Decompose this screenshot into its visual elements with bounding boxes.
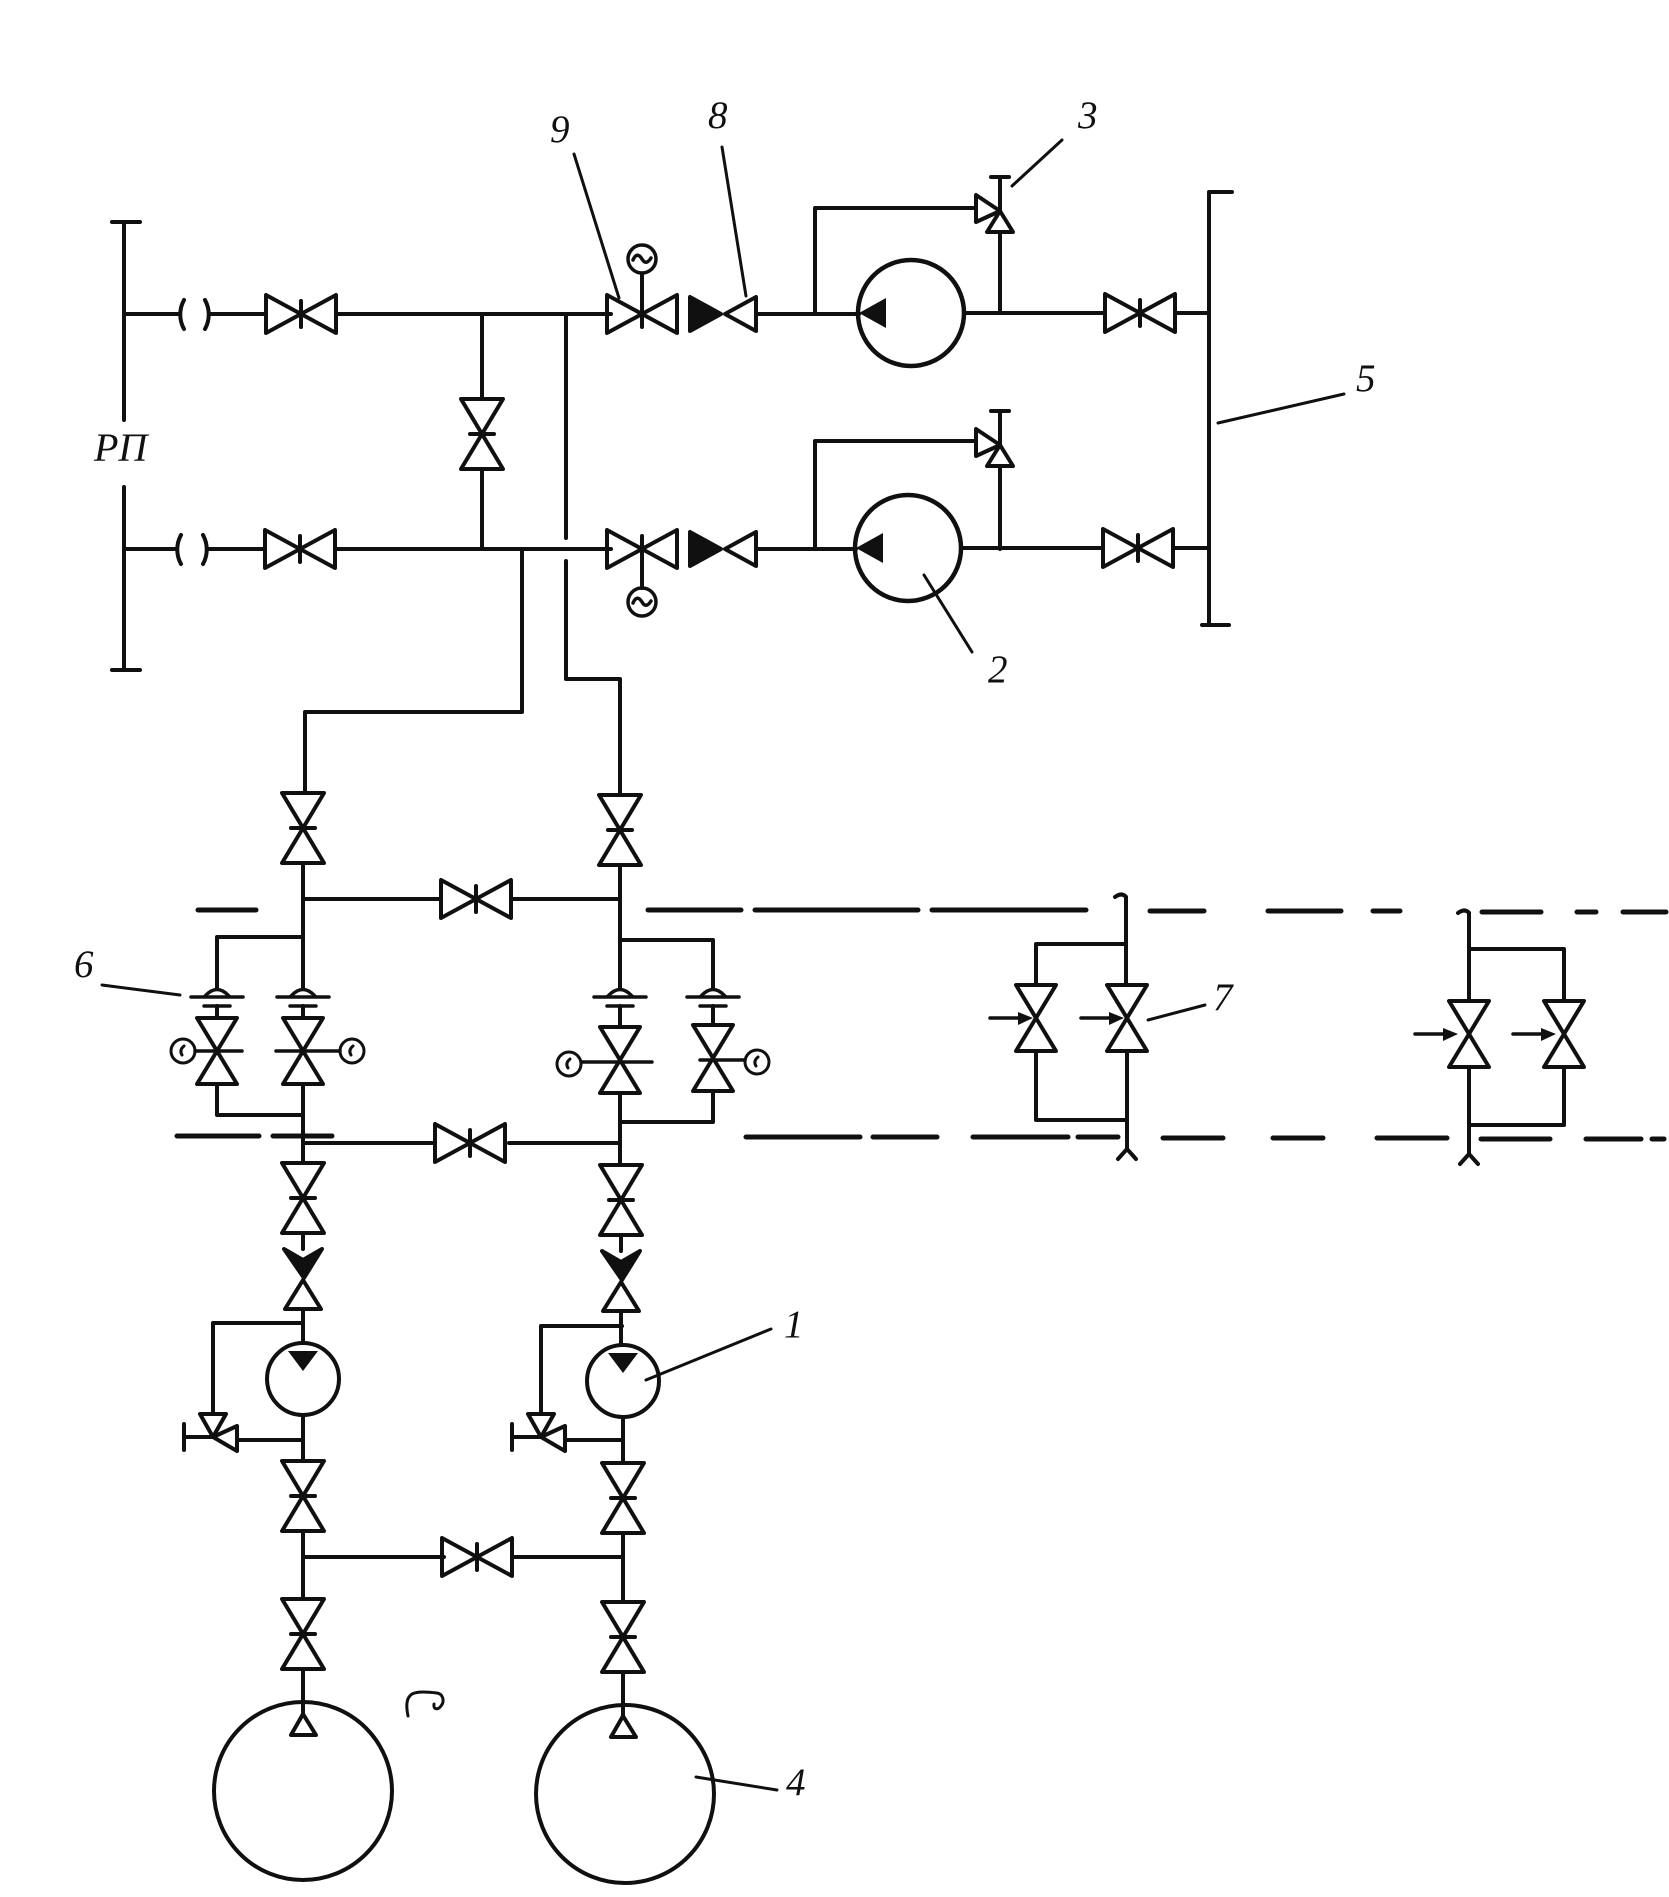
leader for 1 [646, 1329, 771, 1380]
pump 1b [587, 1345, 659, 1417]
wire right meter main riser [618, 899, 622, 1164]
gate valve crossover 2 [435, 1124, 505, 1162]
node consumer stub A bottom foot [1118, 1149, 1136, 1159]
wire left tank riser [301, 1669, 305, 1715]
flow arrow consumer A main [1081, 1012, 1124, 1025]
tank 4a [214, 1702, 392, 1880]
leader for 9 [574, 154, 619, 298]
leader for 2 [924, 575, 972, 652]
check valve 8 row 2 [690, 532, 756, 566]
wire actuator stem row 1 [640, 274, 644, 314]
wire drop line A from row 2 [305, 549, 522, 791]
svg-text:8: 8 [708, 94, 728, 137]
wire consumer A bypass [1036, 944, 1127, 1120]
node discharge header 5 [1202, 192, 1232, 625]
wire left vacuum bypass [213, 1323, 303, 1440]
flow arrow consumer A bypass [990, 1012, 1033, 1025]
union left bypass [191, 990, 243, 1007]
wire pipe to pump 2b [757, 547, 856, 551]
valve 7 consumer B main [1449, 1001, 1489, 1067]
wire bypass loop pump 2a [815, 208, 1000, 313]
wire to header row 2 [1173, 546, 1209, 550]
gate valve row 1 inlet [266, 295, 336, 333]
gauge left main [340, 1039, 364, 1063]
gate valve crossover 1 [441, 880, 511, 918]
gate valve row 2 outlet [1103, 529, 1173, 567]
angle valve right vacuum [512, 1414, 565, 1451]
wire supply pipe row 1 [124, 312, 611, 316]
node consumer stub B top hook [1458, 911, 1469, 914]
svg-text:3: 3 [1077, 94, 1098, 137]
wire left branch to crossover 1 [301, 863, 305, 899]
wire drop line B from row 1 [566, 314, 620, 794]
pump 2a [858, 260, 964, 366]
check valve 8 row 1 [690, 297, 756, 331]
wire right below valve [619, 1235, 623, 1251]
wire stem left bypass gauge [195, 1049, 242, 1053]
valve 7 consumer A main [1107, 985, 1147, 1051]
control valve 9 row 1 [607, 295, 677, 333]
wire left to crossover 3 [301, 1531, 305, 1599]
check valve right suction [602, 1251, 640, 1311]
wire right meter bypass [620, 940, 713, 1122]
angle valve left vacuum [184, 1414, 237, 1451]
gate valve on interconnect riser [461, 399, 503, 469]
wire left to pump 1a [301, 1309, 305, 1343]
svg-text:4: 4 [786, 1761, 806, 1804]
union left main [277, 990, 329, 1007]
wire consumer stub B riser [1467, 913, 1471, 1154]
wire to header row 1 [1175, 311, 1209, 315]
wire left below valve [301, 1233, 305, 1249]
leader for 3 [1012, 140, 1062, 186]
gate valve right branch upper [599, 795, 641, 865]
pipe break row 1 [180, 300, 209, 329]
svg-text:6: 6 [74, 943, 94, 986]
leader for 5 [1218, 394, 1344, 423]
gate valve crossover 3 [442, 1538, 512, 1576]
svg-text:РП: РП [93, 425, 149, 470]
wire supply pipe row 2 [124, 547, 611, 551]
gate valve row 2 inlet [265, 530, 335, 568]
wire left meter main riser [301, 899, 305, 1162]
wire pump 2a discharge [964, 311, 1105, 315]
wire interconnect riser between rows [480, 314, 484, 549]
metering valve right bypass [693, 1025, 733, 1091]
gate valve left branch upper [282, 793, 324, 863]
wire left meter bypass [217, 937, 303, 1115]
pump 1a [267, 1343, 339, 1415]
svg-text:5: 5 [1356, 357, 1376, 400]
union right bypass [687, 990, 739, 1007]
node consumer stub B bottom foot [1460, 1154, 1478, 1164]
wire pump 2b discharge [961, 546, 1103, 550]
pipe break row 2 [177, 535, 207, 564]
boundary chain line lower [177, 1136, 1664, 1139]
svg-text:9: 9 [550, 108, 570, 151]
gate valve left suction mid [282, 1461, 324, 1531]
wire right branch to crossover 1 [618, 865, 622, 899]
valve 7 consumer A bypass [1016, 985, 1056, 1051]
wire bypass loop pump 2b [815, 441, 1000, 549]
wire right pump 1b outlet [621, 1417, 625, 1463]
gate valve right suction upper [600, 1165, 642, 1235]
gate valve row 1 outlet [1105, 294, 1175, 332]
gauge left bypass [171, 1039, 195, 1063]
gate valve right suction mid [602, 1463, 644, 1533]
metering valve left bypass [197, 1018, 237, 1084]
gate valve left tank [282, 1599, 324, 1669]
leader for 8 [722, 147, 746, 296]
wire pipe to pump 2a [757, 312, 859, 316]
control valve 9 row 2 [607, 530, 677, 568]
wire crossover 3 [303, 1555, 623, 1559]
boundary chain line upper [198, 910, 1666, 912]
wire stem left main gauge [276, 1049, 340, 1053]
wire left pump 1a outlet [301, 1415, 305, 1461]
leader for 4 [696, 1777, 777, 1790]
wire actuator stem row 2 [640, 549, 644, 588]
foot valve right tank [611, 1716, 636, 1737]
tank 4b [536, 1705, 714, 1883]
valve 7 consumer B bypass [1544, 1001, 1584, 1067]
pump 2b [855, 495, 961, 601]
gate valve left suction upper [282, 1163, 324, 1233]
relief valve 3 pump 2b [976, 411, 1013, 466]
wire right to pump 1b [619, 1311, 623, 1345]
wire right to crossover 3 [621, 1533, 625, 1602]
flow arrow consumer B main [1415, 1028, 1458, 1041]
node consumer stub A top hook [1115, 895, 1126, 898]
wire crossover 2 [303, 1141, 620, 1145]
svg-text:2: 2 [988, 648, 1008, 691]
node РП supply header bracket [112, 222, 140, 670]
instrument bubble row 2 [628, 588, 656, 616]
wire stem right bypass gauge [700, 1058, 745, 1062]
svg-text:7: 7 [1213, 976, 1234, 1019]
wire right tank riser [621, 1672, 625, 1717]
check valve left suction [284, 1249, 322, 1309]
leader for 6 [102, 985, 180, 995]
wire consumer B bypass [1469, 949, 1564, 1125]
wire consumer stub A riser [1126, 897, 1127, 1149]
wire right vacuum bypass [541, 1326, 622, 1440]
foot valve left tank [291, 1714, 316, 1735]
wire crossover 1 [303, 897, 620, 901]
metering valve left main [283, 1018, 323, 1084]
instrument bubble row 1 [628, 245, 656, 273]
squiggle mark [407, 1692, 443, 1716]
metering valve right main [600, 1027, 640, 1093]
wire stem right main gauge [582, 1060, 652, 1064]
leader for 7 [1148, 1005, 1205, 1020]
gauge right bypass [745, 1050, 769, 1074]
gate valve right tank [602, 1602, 644, 1672]
relief valve 3 pump 2a [976, 177, 1013, 232]
svg-text:1: 1 [784, 1303, 804, 1346]
gauge right main [557, 1052, 581, 1076]
flow arrow consumer B bypass [1513, 1028, 1556, 1041]
union right main [594, 990, 646, 1007]
